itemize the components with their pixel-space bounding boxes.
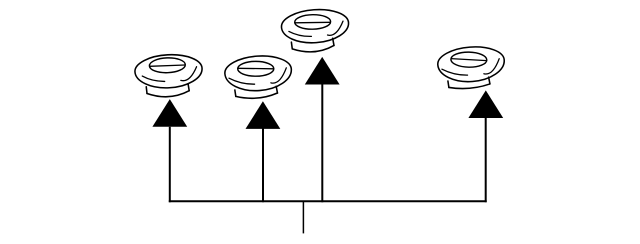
arrow 3 head [305, 57, 340, 85]
arrow 1 head [152, 99, 187, 127]
grommet 3 slot [295, 14, 331, 29]
arrow 2 head [246, 101, 281, 129]
arrow 1 stem [169, 127, 171, 203]
grommet 4 [437, 45, 506, 84]
arrow 4 head [468, 90, 503, 118]
grommet 4 slot [451, 52, 487, 68]
arrow 3 stem [321, 85, 323, 203]
grommet 4 neck [448, 77, 490, 90]
grommet 3 neck [291, 38, 334, 53]
grommet 1 [134, 53, 203, 89]
arrow 4 stem [485, 118, 487, 202]
grommet 3 [280, 7, 349, 45]
arrow 2 stem [262, 128, 264, 203]
bottom rail [169, 200, 487, 202]
grommet 2 slot [238, 61, 274, 76]
grommet 2 [224, 54, 293, 93]
grommet 2 neck [235, 86, 278, 99]
leader line [302, 201, 304, 233]
grommet 1 neck [146, 84, 189, 98]
grommet 1 slot [149, 57, 185, 73]
